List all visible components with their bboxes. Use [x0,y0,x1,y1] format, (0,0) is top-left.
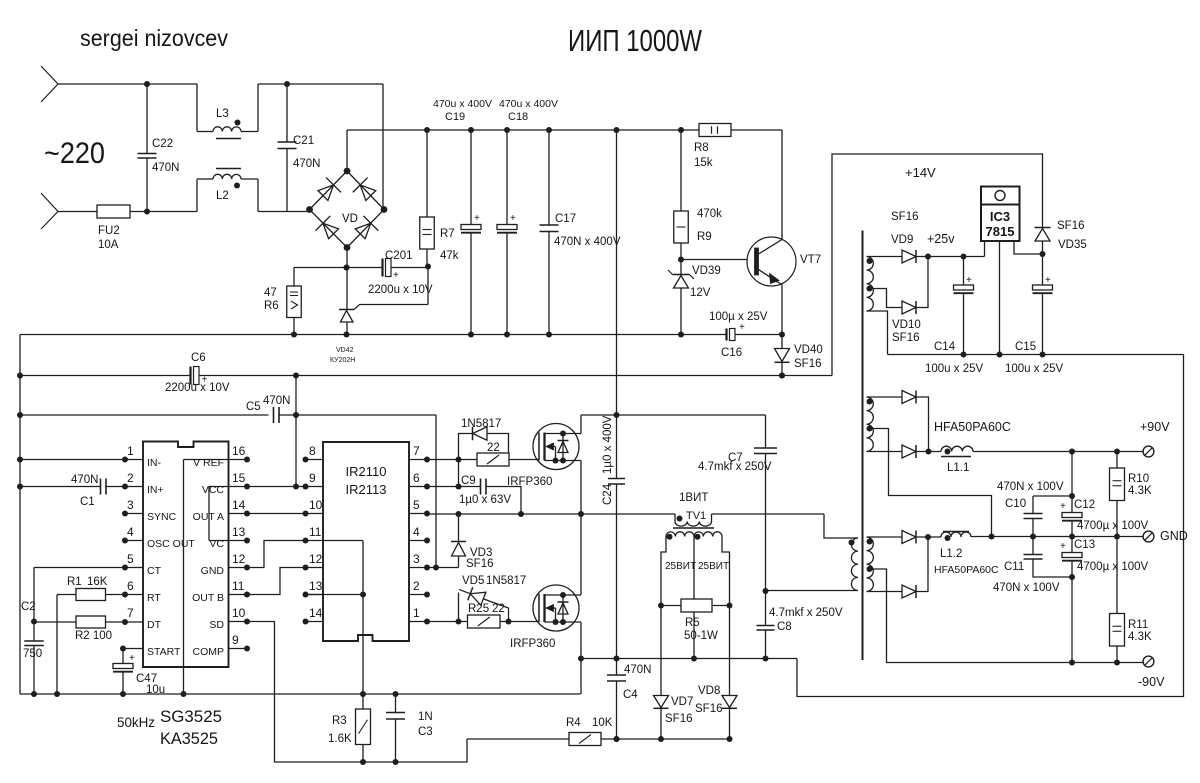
svg-text:5: 5 [413,498,420,512]
svg-text:R6: R6 [264,300,279,312]
svg-text:470N: 470N [71,474,99,486]
svg-text:C5: C5 [246,401,261,413]
svg-text:OSC OUT: OSC OUT [147,538,195,550]
svg-text:470N x 100V: 470N x 100V [997,481,1064,493]
svg-text:C8: C8 [777,621,792,633]
svg-text:IR2110: IR2110 [346,464,387,479]
svg-text:4700µ x 100V: 4700µ x 100V [1077,520,1149,532]
svg-text:SD: SD [209,619,224,631]
svg-text:R1: R1 [67,576,82,588]
svg-text:IC3: IC3 [990,209,1010,224]
svg-text:START: START [147,646,181,658]
svg-text:14: 14 [232,498,246,512]
svg-text:+: + [966,275,972,286]
svg-text:L1.2: L1.2 [940,548,962,560]
svg-text:+: + [474,213,480,224]
svg-text:13: 13 [232,525,246,539]
svg-text:VD8: VD8 [698,685,720,697]
svg-text:+: + [393,270,399,281]
svg-text:750: 750 [23,648,42,660]
svg-text:470N: 470N [293,158,321,170]
svg-text:470N x 100V: 470N x 100V [993,582,1060,594]
svg-text:12: 12 [309,552,323,566]
svg-text:12: 12 [232,552,246,566]
svg-text:OUT A: OUT A [193,511,224,523]
svg-text:~220: ~220 [44,137,105,170]
svg-text:47k: 47k [440,250,459,262]
svg-text:IR2113: IR2113 [346,482,387,497]
svg-text:16K: 16K [87,576,108,588]
svg-text:5: 5 [127,552,134,566]
svg-text:R9: R9 [697,231,712,243]
svg-text:4.7mkf x 250V: 4.7mkf x 250V [769,607,843,619]
svg-text:R4: R4 [566,717,581,729]
svg-text:VC: VC [209,538,224,550]
svg-text:VT7: VT7 [800,254,821,266]
svg-text:C24: C24 [602,483,614,505]
svg-text:IN-: IN- [147,457,162,469]
svg-text:C21: C21 [293,135,314,147]
svg-text:8: 8 [309,444,316,458]
svg-text:GND: GND [201,565,225,577]
svg-text:1: 1 [127,444,134,458]
svg-text:R25: R25 [468,603,489,615]
svg-text:SF16: SF16 [665,713,693,725]
svg-text:+: + [510,213,516,224]
svg-text:2: 2 [127,471,134,485]
svg-text:VD39: VD39 [692,265,721,277]
svg-text:IN+: IN+ [147,484,164,496]
svg-text:1.6K: 1.6K [328,733,352,745]
svg-text:470N: 470N [263,395,291,407]
svg-text:R10: R10 [1128,473,1149,485]
svg-text:50-1W: 50-1W [684,630,718,642]
svg-text:VD35: VD35 [1058,239,1087,251]
svg-text:470N: 470N [624,664,652,676]
svg-text:VD7: VD7 [671,696,693,708]
svg-text:SF16: SF16 [891,211,919,223]
svg-text:C12: C12 [1074,499,1095,511]
svg-text:C16: C16 [721,347,742,359]
svg-text:6: 6 [127,579,134,593]
svg-text:3: 3 [127,498,134,512]
svg-text:100u x 25V: 100u x 25V [1005,363,1064,375]
svg-text:4.3K: 4.3K [1128,631,1152,643]
svg-text:R7: R7 [440,228,455,240]
svg-text:VD42: VD42 [336,347,354,354]
svg-text:C13: C13 [1074,539,1095,551]
svg-text:SF16: SF16 [892,332,920,344]
svg-text:22: 22 [487,442,500,454]
svg-text:CT: CT [147,565,162,577]
svg-text:470k: 470k [697,208,722,220]
svg-text:OUT B: OUT B [192,592,224,604]
svg-text:4.7mkf x 250V: 4.7mkf x 250V [698,461,772,473]
svg-text:15k: 15k [694,157,713,169]
svg-text:RT: RT [147,592,161,604]
svg-text:L1.1: L1.1 [947,462,969,474]
svg-text:HFA50PA60C: HFA50PA60C [934,420,1011,434]
svg-text:ИИП 1000W: ИИП 1000W [568,23,703,58]
svg-text:470u x 400V: 470u x 400V [499,98,558,110]
svg-text:GND: GND [1160,529,1188,543]
svg-text:50kHz: 50kHz [117,714,155,730]
svg-text:R3: R3 [332,715,347,727]
svg-text:SF16: SF16 [695,703,723,715]
svg-text:470u x 400V: 470u x 400V [433,98,492,110]
svg-text:C22: C22 [152,138,173,150]
svg-text:VD10: VD10 [892,319,921,331]
svg-text:100µ x 25V: 100µ x 25V [709,311,768,323]
svg-text:FU2: FU2 [98,225,120,237]
svg-text:+14V: +14V [905,165,936,180]
svg-text:SG3525: SG3525 [160,708,222,726]
svg-text:SF16: SF16 [794,358,822,370]
svg-text:10: 10 [232,606,246,620]
svg-text:КУ202Н: КУ202Н [330,357,355,364]
svg-text:100u x 25V: 100u x 25V [925,363,984,375]
svg-text:4.3K: 4.3K [1128,485,1152,497]
svg-text:25ВИТ: 25ВИТ [665,561,696,572]
svg-text:+90V: +90V [1140,420,1170,434]
svg-text:C17: C17 [555,213,576,225]
svg-text:470N x 400V: 470N x 400V [554,236,621,248]
svg-text:47: 47 [264,287,277,299]
svg-text:+: + [1060,501,1066,512]
svg-text:4: 4 [413,525,420,539]
svg-text:9: 9 [232,633,239,647]
svg-text:1N5817: 1N5817 [486,575,526,587]
svg-text:1: 1 [413,606,420,620]
svg-text:15: 15 [232,471,246,485]
svg-text:13: 13 [309,579,323,593]
svg-text:1N5817: 1N5817 [461,418,501,430]
svg-text:25ВИТ: 25ВИТ [698,561,729,572]
svg-text:C18: C18 [508,111,528,123]
svg-text:IRFP360: IRFP360 [510,638,555,650]
svg-text:10: 10 [309,498,323,512]
svg-text:SF16: SF16 [466,558,494,570]
svg-text:470N: 470N [152,162,180,174]
svg-text:C1: C1 [80,496,95,508]
svg-text:VD40: VD40 [794,344,823,356]
svg-text:C10: C10 [1005,498,1026,510]
svg-text:KA3525: KA3525 [160,730,218,748]
svg-text:R5: R5 [685,617,700,629]
svg-text:+: + [1045,275,1051,286]
svg-text:2200u x 10V: 2200u x 10V [368,284,433,296]
svg-text:1µ0 x 63V: 1µ0 x 63V [459,494,511,506]
svg-text:VD5: VD5 [462,575,484,587]
svg-text:+: + [1060,541,1066,552]
svg-text:C2: C2 [21,601,36,613]
svg-text:4: 4 [127,525,134,539]
svg-text:2200u x 10V: 2200u x 10V [165,382,230,394]
svg-text:C15: C15 [1015,341,1036,353]
svg-text:IRFP360: IRFP360 [507,476,552,488]
svg-text:SYNC: SYNC [147,511,177,523]
svg-text:6: 6 [413,471,420,485]
svg-text:VD9: VD9 [891,234,913,246]
svg-text:COMP: COMP [193,646,225,658]
svg-text:C9: C9 [461,475,476,487]
svg-text:2: 2 [413,579,420,593]
svg-text:11: 11 [309,525,322,539]
svg-text:SF16: SF16 [1057,220,1085,232]
svg-text:4700µ x 100V: 4700µ x 100V [1077,561,1149,573]
svg-text:HFA50PA60C: HFA50PA60C [934,564,999,576]
svg-text:14: 14 [309,606,323,620]
svg-text:DT: DT [147,619,162,631]
svg-text:R8: R8 [694,142,709,154]
svg-text:1ВИТ: 1ВИТ [679,492,708,504]
svg-text:16: 16 [232,444,246,458]
svg-text:TV1: TV1 [686,510,706,522]
svg-text:+: + [739,322,745,333]
svg-text:1µ0 x 400V: 1µ0 x 400V [602,415,614,474]
svg-text:12V: 12V [690,287,711,299]
svg-text:7: 7 [413,444,420,458]
svg-text:VD: VD [342,213,358,225]
svg-text:R2 100: R2 100 [75,630,112,642]
svg-text:V REF: V REF [193,457,224,469]
svg-text:7: 7 [127,606,134,620]
svg-text:C3: C3 [418,726,433,738]
svg-text:C201: C201 [385,250,413,262]
svg-text:-90V: -90V [1138,675,1165,689]
svg-text:10A: 10A [98,239,119,251]
svg-text:7815: 7815 [986,224,1015,239]
svg-text:10K: 10K [592,717,613,729]
svg-text:C14: C14 [934,341,956,353]
svg-text:L3: L3 [216,108,229,120]
svg-text:+25v: +25v [927,232,955,246]
svg-text:3: 3 [413,552,420,566]
svg-text:C4: C4 [623,689,638,701]
svg-text:9: 9 [309,471,316,485]
svg-text:11: 11 [232,579,245,593]
svg-text:R11: R11 [1128,619,1148,631]
svg-text:L2: L2 [216,190,229,202]
svg-text:VCC: VCC [202,484,225,496]
svg-text:+: + [129,653,135,664]
svg-text:C11: C11 [1004,561,1024,573]
svg-text:C6: C6 [191,352,206,364]
svg-text:1N: 1N [418,711,433,723]
svg-text:sergei nizovcev: sergei nizovcev [80,25,228,51]
svg-text:C19: C19 [445,111,465,123]
